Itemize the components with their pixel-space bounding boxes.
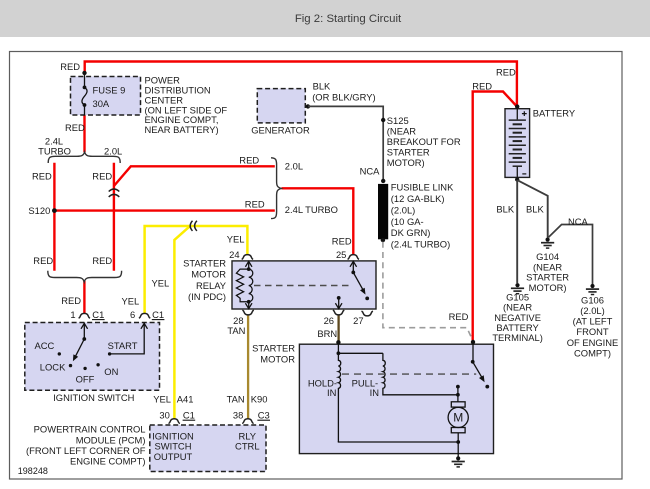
svg-text:30: 30 — [159, 410, 169, 421]
label RED near battery corner — [496, 66, 516, 77]
label BLK (OR BLK/GRY) — [312, 81, 375, 103]
svg-text:MOTOR): MOTOR) — [387, 157, 425, 168]
svg-text:6: 6 — [130, 309, 135, 320]
label G104 block — [526, 251, 569, 293]
starter switch — [471, 344, 489, 389]
svg-text:BATTERY: BATTERY — [533, 108, 576, 119]
svg-text:S125: S125 — [387, 115, 409, 126]
label NCA right — [568, 216, 589, 227]
pin 24 lead+coil U1 — [236, 261, 252, 309]
wire RED 2.0L feed diagonal+horizontal — [114, 166, 275, 186]
starter return wire — [338, 440, 460, 456]
label YEL relay — [227, 234, 245, 245]
svg-text:(12 GA-BLK): (12 GA-BLK) — [391, 193, 445, 204]
starter B+ node — [471, 340, 475, 344]
label HOLD-IN — [308, 377, 337, 398]
svg-text:(2.0L): (2.0L) — [580, 305, 605, 316]
break symbol on yellow — [190, 221, 197, 231]
label 2.4L TURBO feed — [285, 204, 338, 215]
wire BLK generator to S125 — [306, 104, 384, 180]
pin 25 connector — [336, 249, 359, 260]
svg-text:BRN: BRN — [317, 328, 337, 339]
svg-text:ACC: ACC — [35, 340, 55, 351]
svg-text:COMPT): COMPT) — [574, 347, 611, 358]
svg-text:RED: RED — [33, 255, 53, 266]
node S120 — [28, 205, 56, 216]
generator box — [257, 89, 305, 123]
svg-text:RED: RED — [472, 81, 492, 92]
svg-text:NCA: NCA — [360, 166, 381, 177]
pin 27 connector — [353, 311, 373, 326]
svg-text:RELAY: RELAY — [196, 280, 227, 291]
svg-text:24: 24 — [229, 249, 239, 260]
brace join above ignition switch — [48, 271, 122, 282]
svg-text:C3: C3 — [258, 410, 270, 421]
label relay block — [183, 258, 227, 302]
svg-text:(2.0L): (2.0L) — [391, 204, 416, 215]
svg-text:BLK: BLK — [526, 203, 544, 214]
svg-text:(10 GA-: (10 GA- — [391, 216, 424, 227]
svg-text:25: 25 — [336, 249, 346, 260]
ignition positions — [58, 352, 112, 370]
svg-text:38: 38 — [233, 410, 243, 421]
svg-text:M: M — [453, 411, 463, 425]
svg-text:2.0L: 2.0L — [104, 145, 122, 156]
svg-text:(OR BLK/GRY): (OR BLK/GRY) — [312, 91, 375, 102]
ignition switch arm — [73, 339, 84, 361]
label RED left branch lower — [33, 255, 53, 266]
svg-text:1: 1 — [70, 309, 75, 320]
title bar — [0, 0, 650, 37]
svg-text:RED: RED — [245, 198, 265, 209]
svg-text:MOTOR): MOTOR) — [529, 282, 567, 293]
svg-text:DK GRN): DK GRN) — [391, 227, 431, 238]
svg-text:RED: RED — [239, 155, 259, 166]
label RED right branch — [92, 171, 112, 182]
svg-text:IN: IN — [327, 387, 336, 398]
label 198248 — [18, 466, 48, 476]
pin 1 connector — [70, 309, 104, 320]
label RED relay 25 — [332, 235, 352, 246]
label 2.4L TURBO variant — [38, 136, 71, 157]
label RED below fuse — [65, 122, 85, 133]
label IGNITION SWITCH — [53, 392, 134, 403]
wire RED fuse output — [83, 115, 85, 152]
motor feed — [456, 385, 460, 402]
label NCA fusible — [360, 166, 381, 177]
label BLK right — [526, 203, 544, 214]
label TAN top — [227, 325, 245, 336]
svg-text:FUSE 9: FUSE 9 — [93, 85, 126, 96]
label BRN — [317, 328, 337, 339]
fuse box (PDC) — [71, 77, 141, 116]
label START — [108, 340, 138, 351]
svg-text:Fig 2: Starting Circuit: Fig 2: Starting Circuit — [295, 13, 402, 25]
wire YEL branch to PCM pin30 — [174, 226, 189, 419]
svg-text:YEL: YEL — [122, 295, 140, 306]
svg-text:RED: RED — [496, 66, 516, 77]
wire NCA to G106 — [548, 225, 592, 285]
svg-text:K90: K90 — [251, 394, 268, 405]
motor M1 — [448, 402, 468, 442]
ground G106 — [586, 284, 599, 295]
label fusible link block — [391, 182, 454, 250]
svg-text:STARTER: STARTER — [387, 146, 430, 157]
svg-text:RED: RED — [32, 171, 52, 182]
brace 2.0L/2.4L join (right) — [271, 158, 281, 219]
label G105 block — [492, 291, 543, 343]
label OFF — [76, 374, 95, 385]
starter ground — [452, 456, 465, 467]
label RED battery feed — [472, 81, 492, 92]
svg-text:FRONT: FRONT — [576, 326, 609, 337]
svg-text:MOTOR: MOTOR — [191, 269, 226, 280]
fusible link element — [378, 179, 388, 243]
label RED 2.4L feed — [245, 198, 265, 209]
svg-text:RED: RED — [92, 171, 112, 182]
wire RED battery feed to starter (vertical) — [473, 92, 517, 342]
svg-text:27: 27 — [353, 315, 363, 326]
ignition start wire — [110, 323, 148, 354]
svg-text:OFF: OFF — [76, 374, 95, 385]
label ON — [104, 366, 118, 377]
svg-text:RED: RED — [65, 122, 85, 133]
relay box — [232, 261, 376, 309]
svg-text:2.0L: 2.0L — [285, 161, 303, 172]
brace split below fuse — [48, 152, 120, 163]
svg-text:POWERTRAIN CONTROL: POWERTRAIN CONTROL — [34, 424, 146, 435]
svg-text:GENERATOR: GENERATOR — [251, 125, 310, 136]
wire RED top rail (fuse to battery) — [85, 62, 517, 106]
label RED left branch — [32, 171, 52, 182]
label IGNITION SWITCH OUTPUT — [152, 430, 194, 462]
label LOCK — [40, 361, 66, 372]
label RED ignition feed — [61, 295, 81, 306]
svg-text:YEL: YEL — [152, 278, 170, 289]
pin 28 connector — [233, 310, 254, 326]
svg-text:START: START — [108, 340, 138, 351]
fuse F9 symbol — [82, 71, 87, 116]
wire TAN relay28 to PCM38 — [247, 315, 249, 419]
svg-text:NEAR BATTERY): NEAR BATTERY) — [145, 124, 219, 135]
svg-text:BREAKOUT FOR: BREAKOUT FOR — [387, 136, 461, 147]
svg-text:NCA: NCA — [568, 216, 589, 227]
label 2.0L feed — [285, 161, 303, 172]
svg-text:MODULE (PCM): MODULE (PCM) — [76, 434, 146, 445]
svg-text:LOCK: LOCK — [40, 361, 66, 372]
svg-text:26: 26 — [324, 315, 334, 326]
relay mech dashed link — [254, 285, 352, 287]
svg-text:OF ENGINE: OF ENGINE — [567, 337, 619, 348]
label RLY CTRL — [235, 430, 259, 451]
label RED right branch lower — [92, 255, 112, 266]
pin 30 connector — [159, 410, 195, 424]
svg-text:YEL: YEL — [153, 394, 171, 405]
svg-text:OUTPUT: OUTPUT — [154, 451, 193, 462]
svg-text:(IN PDC): (IN PDC) — [188, 291, 226, 302]
pin 26 connector — [324, 310, 345, 326]
svg-text:(2.4L TURBO): (2.4L TURBO) — [391, 239, 450, 250]
label S125 block — [387, 115, 461, 168]
svg-text:(NEAR: (NEAR — [387, 126, 416, 137]
wire BLK battery to G105 — [516, 180, 518, 283]
label RED starter feed — [449, 311, 469, 322]
svg-text:RED: RED — [60, 61, 80, 72]
svg-text:C1: C1 — [92, 309, 104, 320]
battery — [505, 104, 530, 181]
label GENERATOR — [251, 125, 310, 136]
svg-text:(AT LEFT: (AT LEFT — [573, 316, 613, 327]
wire BRN relay26 to starter — [337, 315, 339, 342]
ignition pin1 lead — [81, 323, 88, 341]
label ACC — [35, 340, 55, 351]
label TAN K90 — [227, 394, 268, 405]
pin 24 connector — [229, 249, 253, 260]
svg-text:(FRONT LEFT CORNER OF: (FRONT LEFT CORNER OF — [26, 445, 146, 456]
PCM box — [150, 425, 266, 472]
svg-text:IN: IN — [370, 387, 379, 398]
svg-text:A41: A41 — [177, 394, 194, 405]
svg-text:G106: G106 — [581, 294, 604, 305]
svg-text:STARTER: STARTER — [252, 342, 295, 353]
wire RED 2.0L branch (right) — [113, 163, 115, 271]
wire YEL to relay pin24 — [191, 226, 248, 255]
svg-text:C1: C1 — [183, 410, 195, 421]
svg-text:FUSIBLE LINK: FUSIBLE LINK — [391, 182, 454, 193]
label 2.0L variant — [104, 145, 122, 156]
svg-text:198248: 198248 — [18, 466, 48, 476]
pin 38 connector — [233, 410, 270, 424]
svg-text:TURBO: TURBO — [38, 145, 71, 156]
label BATTERY — [533, 108, 576, 119]
svg-text:TAN: TAN — [227, 325, 245, 336]
svg-text:CTRL: CTRL — [235, 441, 259, 452]
wire NCA dashed (link to starter B+) — [383, 242, 473, 341]
label PCM block — [26, 424, 146, 467]
label RED top-left — [60, 61, 80, 72]
starter solenoid feed — [337, 344, 383, 355]
svg-text:MOTOR: MOTOR — [260, 354, 295, 365]
label YEL A41 — [153, 394, 193, 405]
svg-text:C1: C1 — [152, 309, 164, 320]
ground G105 — [511, 283, 524, 294]
pin 6 connector — [130, 309, 164, 320]
label RED 2.0L feed — [239, 155, 259, 166]
node S125 — [381, 118, 385, 122]
svg-text:BLK: BLK — [496, 203, 514, 214]
svg-text:TERMINAL): TERMINAL) — [492, 332, 543, 343]
break symbol on 2.0L branch — [109, 189, 120, 197]
svg-text:ENGINE COMPT): ENGINE COMPT) — [70, 456, 146, 467]
svg-text:YEL: YEL — [227, 234, 245, 245]
label power distribution center — [145, 75, 228, 136]
wire RED 2.4L branch (left) — [53, 163, 55, 271]
svg-text:STARTER: STARTER — [183, 258, 226, 269]
starter motor box — [299, 344, 493, 453]
wire BLK battery to G104 — [517, 180, 547, 237]
label PULL-IN — [352, 377, 379, 398]
svg-text:28: 28 — [233, 315, 243, 326]
wire YEL ignition pin6 riser — [145, 226, 190, 314]
svg-text:RED: RED — [449, 311, 469, 322]
label G106 block — [567, 294, 619, 358]
starter BRN entry node — [336, 340, 340, 344]
svg-text:30A: 30A — [93, 98, 110, 109]
wire RED brace output to relay pin 25 — [282, 188, 354, 255]
label YEL riser — [152, 278, 170, 289]
pull-in coil — [383, 353, 458, 395]
svg-text:TAN: TAN — [227, 394, 245, 405]
svg-text:S120: S120 — [28, 205, 50, 216]
label STARTER MOTOR — [252, 342, 295, 364]
svg-text:RED: RED — [332, 235, 352, 246]
label FUSE 9 30A — [93, 85, 126, 109]
starter mech dashed link — [342, 373, 476, 375]
wire RED S120 horizontal (2.4L TURBO) — [54, 209, 274, 211]
svg-text:ON: ON — [104, 366, 118, 377]
svg-text:RED: RED — [61, 295, 81, 306]
label YEL pin6 — [122, 295, 140, 306]
ground G104 — [541, 238, 554, 249]
svg-text:IGNITION SWITCH: IGNITION SWITCH — [53, 392, 134, 403]
ignition switch box — [25, 323, 160, 391]
hold-in coil — [338, 353, 340, 442]
relay switch SW1 — [350, 261, 369, 300]
svg-text:2.4L TURBO: 2.4L TURBO — [285, 204, 338, 215]
svg-text:RED: RED — [92, 255, 112, 266]
svg-text:BLK: BLK — [313, 81, 331, 92]
label BLK left — [496, 203, 514, 214]
pin 26 lead — [335, 296, 342, 309]
wire RED ignition feed (brace to pin 1) — [83, 281, 85, 314]
